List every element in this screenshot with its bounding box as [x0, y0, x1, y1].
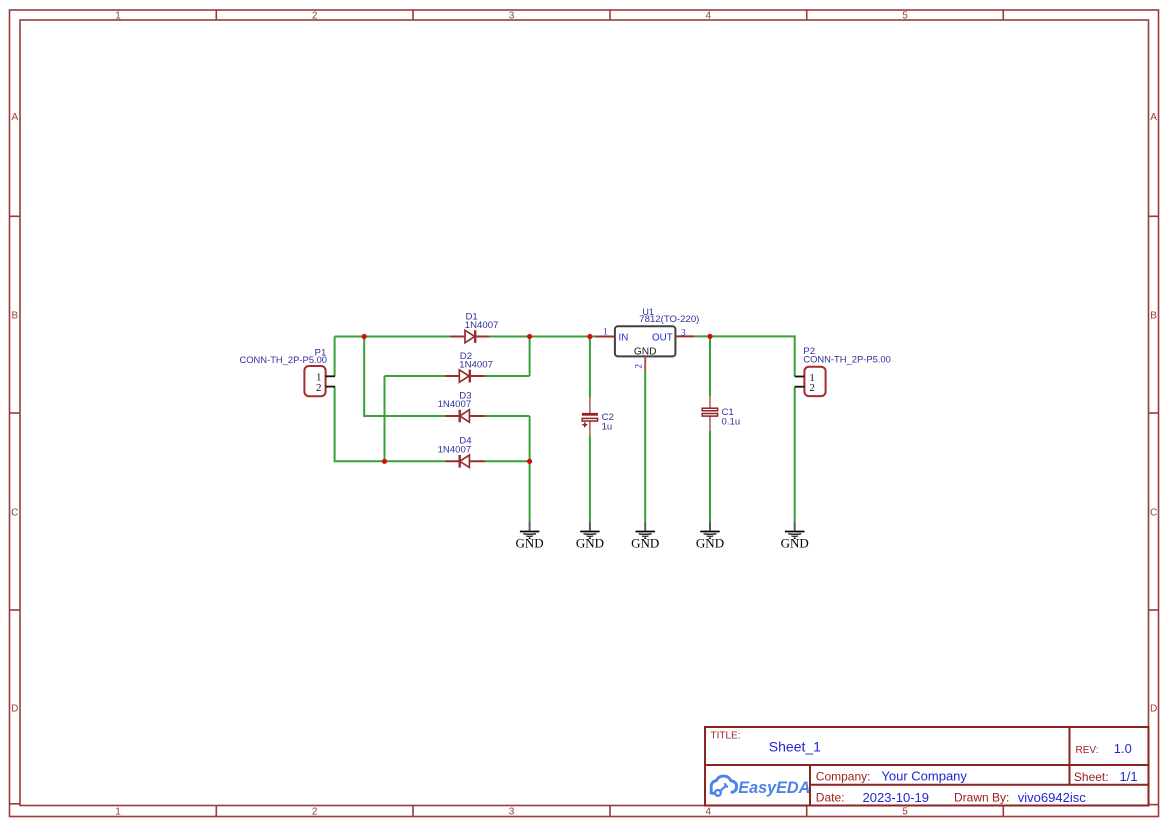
svg-text:1N4007: 1N4007 — [465, 320, 499, 331]
svg-text:GND: GND — [696, 536, 724, 551]
diode D1 — [450, 330, 490, 343]
diode D3 (mirrored) — [445, 410, 485, 423]
node row1/C2 — [587, 334, 592, 339]
node row1/v1 — [362, 334, 367, 339]
ground GND4 — [696, 521, 724, 550]
svg-text:2: 2 — [312, 11, 318, 22]
wire C2 column lower to GND2 — [589, 436, 591, 521]
svg-text:D: D — [1150, 704, 1157, 715]
svg-text:TITLE:: TITLE: — [711, 731, 741, 742]
node row1/v3a — [527, 334, 532, 339]
wire P1 pin1 riser — [334, 337, 336, 377]
svg-text:2: 2 — [312, 807, 318, 818]
svg-text:OUT: OUT — [652, 333, 673, 344]
node out/C1 — [707, 334, 712, 339]
svg-text:Drawn By:: Drawn By: — [954, 791, 1009, 805]
wire row3: D3 anode to GND column — [485, 415, 530, 417]
connector P1 pin 1 stub — [326, 375, 335, 377]
wire row1 AC1: P1 corner to D1 anode — [335, 336, 450, 338]
svg-text:IN: IN — [619, 332, 629, 343]
svg-text:GND: GND — [576, 536, 604, 551]
wire P1 pin2 drop to row4 — [335, 387, 445, 462]
ground GND1 — [516, 521, 544, 550]
svg-text:1N4007: 1N4007 — [438, 445, 472, 456]
wire C1 column lower to GND4 — [709, 431, 711, 521]
svg-text:3: 3 — [509, 807, 515, 818]
ground GND5 — [781, 521, 809, 550]
svg-text:Your Company: Your Company — [881, 769, 967, 784]
wire row4: D4 anode to GND column — [485, 460, 529, 462]
svg-text:D: D — [11, 704, 18, 715]
capacitor C1 bottom plate — [702, 414, 717, 417]
frame column numbers top — [115, 11, 908, 22]
capacitor C2 plus sign — [582, 422, 587, 427]
wire v2: row2 to row4 — [384, 376, 386, 461]
ground GND2 — [576, 521, 604, 550]
svg-text:Sheet:: Sheet: — [1074, 770, 1109, 784]
svg-text:CONN-TH_2P-P5.00: CONN-TH_2P-P5.00 — [803, 354, 891, 365]
frame column numbers bottom — [115, 807, 908, 818]
capacitor C2 bottom plate — [582, 418, 597, 421]
svg-text:1u: 1u — [602, 422, 613, 433]
svg-text:C: C — [1150, 508, 1157, 519]
svg-text:B: B — [1150, 311, 1157, 322]
svg-text:GND: GND — [631, 536, 659, 551]
svg-text:1: 1 — [115, 807, 121, 818]
frame row letters right — [1150, 112, 1157, 715]
diode D2 — [445, 370, 485, 383]
svg-text:GND: GND — [634, 346, 657, 357]
svg-text:REV:: REV: — [1076, 745, 1099, 756]
wire C2 column upper — [589, 337, 591, 398]
ground GND3 — [631, 521, 659, 550]
svg-text:vivo6942isc: vivo6942isc — [1018, 790, 1086, 805]
svg-text:3: 3 — [681, 327, 686, 337]
EasyEDA logo cloud icon — [711, 776, 736, 796]
wire row1: D1 cathode to U1 pin1 — [490, 336, 595, 338]
svg-text:B: B — [11, 311, 18, 322]
svg-text:1.0: 1.0 — [1114, 741, 1132, 756]
svg-text:A: A — [1150, 112, 1157, 123]
svg-text:1: 1 — [603, 326, 608, 336]
connector P1 body — [304, 366, 325, 396]
svg-text:3: 3 — [509, 11, 515, 22]
wire row2: v2 to D2 anode — [385, 375, 446, 377]
frame row letters left — [11, 112, 18, 715]
svg-text:2023-10-19: 2023-10-19 — [863, 790, 930, 805]
wire P2 pin2 drop to GND5 — [794, 387, 796, 522]
svg-text:4: 4 — [706, 807, 712, 818]
svg-text:CONN-TH_2P-P5.00: CONN-TH_2P-P5.00 — [239, 354, 327, 365]
wire v3a: row1 to row2 — [529, 337, 531, 377]
title block grid — [705, 727, 1149, 806]
svg-text:1N4007: 1N4007 — [459, 360, 493, 371]
svg-text:GND: GND — [781, 536, 809, 551]
capacitor C2 pins — [589, 397, 591, 436]
svg-text:C: C — [11, 508, 18, 519]
wire v3b: row3 to GND1 — [529, 416, 531, 521]
svg-text:A: A — [11, 112, 18, 123]
svg-text:EasyEDA: EasyEDA — [738, 779, 810, 797]
wire v1: row1 to row3 — [364, 337, 445, 417]
wire C1 column upper — [709, 336, 711, 396]
svg-text:GND: GND — [516, 536, 544, 551]
node row4/v2 — [382, 459, 387, 464]
svg-text:1/1: 1/1 — [1120, 769, 1138, 784]
connector P1 pin 2 stub — [326, 386, 335, 388]
op-amp-style box U1 — [615, 326, 676, 356]
svg-text:7812(TO-220): 7812(TO-220) — [639, 314, 699, 325]
U1 pin 1 stub — [595, 336, 615, 338]
connector P2 pin 2 stub — [795, 386, 805, 388]
capacitor C1 top plate — [702, 408, 717, 411]
wire row out: U1 pin3 to P2 riser — [694, 336, 794, 376]
svg-text:1: 1 — [115, 11, 121, 22]
svg-text:4: 4 — [706, 11, 712, 22]
U1 pin 3 stub — [675, 335, 694, 337]
svg-text:2: 2 — [316, 382, 322, 394]
diode D4 (mirrored) — [445, 455, 485, 468]
svg-text:2: 2 — [634, 364, 644, 369]
svg-text:1N4007: 1N4007 — [438, 399, 472, 410]
capacitor C1 pins — [709, 396, 711, 431]
capacitor C2 top plate — [582, 413, 598, 416]
svg-text:0.1u: 0.1u — [722, 417, 741, 428]
U1 pin 2 stub — [644, 356, 646, 371]
svg-text:Company:: Company: — [816, 769, 871, 783]
node row4/GND column — [527, 459, 532, 464]
svg-text:5: 5 — [902, 807, 908, 818]
connector P2 pin 1 stub — [795, 376, 805, 378]
svg-text:2: 2 — [809, 382, 815, 394]
wire row2: D2 cathode to v3a — [485, 375, 530, 377]
svg-text:Sheet_1: Sheet_1 — [769, 739, 821, 755]
wire U1 pin2 drop to GND3 — [644, 372, 646, 522]
connector P2 body — [804, 367, 825, 396]
svg-text:Date:: Date: — [816, 791, 845, 805]
svg-text:5: 5 — [902, 11, 908, 22]
